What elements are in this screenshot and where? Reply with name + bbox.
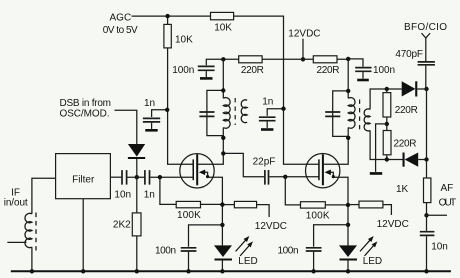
LED D4 — [214, 245, 232, 257]
wire coupling node down to R8 — [136, 177, 138, 213]
node IF rail — [30, 269, 34, 273]
svg-text:1K: 1K — [396, 184, 409, 195]
node tank1 top — [221, 88, 225, 92]
ground divider — [370, 172, 382, 175]
wire R10 to 12VDC stub — [257, 205, 270, 217]
core of T2 dashed — [359, 100, 361, 131]
node tank2 bottom — [346, 136, 350, 140]
ground under C1 — [145, 129, 157, 132]
node divider mid — [385, 122, 389, 126]
node C13 rail — [311, 269, 315, 273]
node R8 rail — [135, 269, 139, 273]
wire BFO terminal down to C8 — [425, 38, 427, 61]
resistor R9 100K feedback Q1 — [176, 201, 200, 207]
wire filter output to C10 — [110, 176, 121, 178]
svg-text:220R: 220R — [395, 105, 418, 116]
svg-text:LED: LED — [238, 256, 257, 267]
node 220R divider top — [385, 87, 389, 91]
svg-text:in/out: in/out — [4, 197, 28, 208]
wire C6 to gate1 Q2 — [269, 176, 319, 178]
node tank1 bottom — [221, 136, 225, 140]
svg-text:0V to 5V: 0V to 5V — [103, 25, 138, 36]
resistor R10 source feed Q1 — [234, 201, 256, 207]
resistor R11 100K feedback Q2 — [301, 202, 326, 208]
capacitor C8 470pF — [418, 62, 435, 65]
capacitor C6 22pF coupling — [265, 170, 269, 185]
wire C10 to node / node to C11 — [127, 176, 144, 178]
ground rail — [11, 270, 451, 272]
wire divider mid to ground — [376, 124, 387, 172]
capacitor C11 1n coupling — [145, 170, 150, 185]
svg-text:12VDC: 12VDC — [288, 28, 320, 39]
core of T1 dashed — [234, 98, 236, 125]
svg-text:10n: 10n — [431, 241, 448, 252]
svg-text:470pF: 470pF — [395, 49, 423, 60]
svg-text:10n: 10n — [114, 190, 131, 201]
capacitor C4 100n decoupling node B — [348, 59, 363, 67]
node gate1 Q2 — [283, 175, 287, 179]
svg-text:AF: AF — [441, 183, 454, 194]
capacitor C12 100n source bypass Q1 — [181, 248, 197, 251]
svg-text:22pF: 22pF — [253, 157, 276, 168]
svg-text:1n: 1n — [144, 98, 155, 109]
resistor R1 10K horizontal — [211, 12, 234, 19]
svg-text:OUT: OUT — [439, 198, 457, 209]
capacitor C7 tank2 — [325, 112, 340, 116]
svg-text:12VDC: 12VDC — [377, 219, 409, 230]
wire L4 bottom to diode D3 line — [370, 130, 403, 159]
node gate2 Q2 / C2 junction — [281, 107, 285, 111]
node D3 junction on BFO line — [424, 157, 428, 161]
resistor R5 220R divider upper — [386, 89, 388, 160]
svg-text:100K: 100K — [177, 210, 201, 221]
node A — [221, 57, 225, 61]
wire gate1 Q2 to R11 — [285, 177, 300, 205]
wire R11 to source node Q2 — [325, 204, 348, 206]
svg-text:10K: 10K — [214, 23, 232, 34]
svg-text:OSC/MOD.: OSC/MOD. — [60, 109, 110, 120]
LED D4 arrows — [236, 239, 251, 256]
node drain Q1 — [221, 151, 225, 155]
inductor L5 IF coil — [25, 213, 32, 247]
svg-text:100n: 100n — [373, 65, 395, 76]
filter FL1 box — [56, 154, 111, 199]
wire bypass branch to C13 — [314, 225, 348, 247]
node gate1 Q1 — [158, 175, 162, 179]
resistor R7 1K — [424, 178, 431, 203]
wire source node to R10 — [222, 204, 234, 206]
wire D3 anode to BFO line — [418, 159, 426, 161]
diode D2 detector — [402, 81, 416, 96]
wire R9 to source node Q1 — [201, 203, 223, 205]
svg-text:AGC: AGC — [110, 12, 132, 23]
inductor L1 tank1 primary — [223, 98, 230, 129]
node source bypass Q1 — [220, 223, 224, 227]
ground under C2 — [261, 128, 273, 131]
node C9 rail — [424, 269, 428, 273]
svg-text:1n: 1n — [144, 190, 155, 201]
capacitor C3 100n decoupling node A — [206, 59, 223, 65]
svg-text:10K: 10K — [175, 34, 193, 45]
node coupling caps / D1 / R8 junction — [135, 175, 139, 179]
wire R7 to AF OUT node — [426, 203, 428, 216]
ground under C4 — [357, 79, 369, 82]
svg-text:220R: 220R — [317, 65, 340, 76]
wire drain Q2 to tank2 bottom — [324, 59, 349, 164]
wire L4 top to detector diode D2 — [370, 89, 402, 109]
ground under C3 — [200, 77, 213, 80]
wire 12VDC stub down — [302, 39, 304, 60]
capacitor C10 10n coupling — [122, 170, 127, 185]
wire supply rail y=59 from node A to node B — [223, 58, 348, 60]
svg-text:100n: 100n — [155, 246, 176, 257]
wire R12 to 12VDC stub — [383, 205, 392, 215]
node tank2 top — [346, 89, 350, 93]
wire D1 cathode to coupling node — [136, 159, 138, 177]
svg-text:100n: 100n — [172, 65, 194, 76]
node source bypass Q2 — [346, 223, 350, 227]
transistor Q1 dual-gate MOSFET — [180, 154, 214, 188]
node C12 rail — [186, 269, 190, 273]
resistor R12 source feed Q2 — [359, 201, 383, 208]
node AF OUT — [424, 213, 428, 217]
wire R8 to ground rail — [136, 236, 138, 271]
node filter rail — [81, 269, 85, 273]
node source Q2 — [346, 203, 350, 207]
wire C12 to ground rail — [188, 252, 190, 272]
terminal Y BFO input — [422, 33, 431, 38]
diode D1 DSB injection — [128, 144, 145, 157]
wire drain Q1 to C6 22pF — [223, 153, 264, 176]
wire source node to R12 — [348, 204, 359, 206]
wire tank1 capacitor branch — [207, 90, 223, 135]
wire D2 cathode to BFO line — [417, 88, 426, 90]
node D3 / R6 junction — [385, 157, 389, 161]
wire C9 to ground rail — [426, 236, 428, 271]
wire AGC input to node AGC — [132, 15, 211, 17]
svg-text:100K: 100K — [306, 210, 330, 221]
capacitor C13 100n source bypass Q2 — [306, 248, 322, 251]
LED D5 arrows — [360, 239, 375, 256]
wire IF line from rail up to filter — [32, 178, 56, 271]
svg-text:BFO/CIO: BFO/CIO — [404, 22, 447, 33]
node D2 junction on BFO line — [424, 87, 428, 91]
node B — [346, 57, 350, 61]
wire DSB input to diode D1 — [115, 110, 137, 144]
node LED2 rail — [346, 269, 350, 273]
capacitor C5 tank1 — [199, 112, 214, 116]
wire C13 to ground rail — [313, 252, 315, 272]
svg-text:1n: 1n — [262, 96, 273, 107]
wire AF OUT stub — [427, 214, 448, 216]
capacitor C1 1n gate2 decoupling Q1 — [152, 110, 167, 117]
svg-text:100n: 100n — [278, 246, 299, 257]
resistor R4 220R drain feed Q2 — [313, 56, 337, 63]
wire AGC node to gate2 of Q2 via vertical drop at x=283.5 — [234, 16, 320, 164]
node 12VDC top junction — [301, 57, 305, 61]
svg-text:2K2: 2K2 — [113, 220, 131, 231]
wire tank2 capacitor branch — [333, 91, 349, 136]
inductor L4 tank2 secondary — [364, 109, 370, 131]
svg-text:LED: LED — [363, 256, 382, 267]
svg-text:Filter: Filter — [72, 175, 95, 186]
svg-text:220R: 220R — [394, 139, 417, 150]
wire BFO line down through diode junctions to R7 — [425, 66, 428, 178]
resistor R3 220R drain feed Q1 — [239, 56, 262, 63]
LED D5 — [339, 245, 357, 257]
wire tank1 main vertical / drain line of Q1 — [198, 59, 223, 164]
wire source Q2 down — [333, 177, 348, 245]
wire bypass branch to C12 — [189, 225, 223, 247]
node source Q1 — [220, 202, 224, 206]
diode D3 — [403, 153, 405, 167]
svg-text:220R: 220R — [241, 65, 264, 76]
wire C11 to gate1 Q1 — [150, 176, 193, 178]
node LED1 rail — [220, 269, 224, 273]
capacitor C2 1n gate2 decoupling Q2 — [267, 109, 283, 116]
svg-text:12VDC: 12VDC — [255, 221, 287, 232]
core of L5 dashed — [35, 213, 37, 251]
transistor Q2 dual-gate MOSFET — [306, 154, 340, 188]
resistor R8 2K2 — [132, 213, 141, 236]
node gate2 Q1 / C1 junction — [165, 108, 169, 112]
resistor R6 220R divider lower — [383, 131, 391, 155]
wire IF tap — [7, 241, 26, 243]
node AGC junction — [165, 14, 169, 18]
wire filter bottom pin to ground rail — [82, 199, 84, 272]
capacitor C9 10n — [420, 232, 435, 236]
wire source Q1 down — [208, 177, 223, 245]
wire AF node down to C9 — [426, 215, 428, 231]
wire AGC node down through R 10K to gate2 of Q1 — [168, 16, 194, 164]
inductor L2 tank1 secondary link — [241, 100, 247, 123]
resistor R2 10K vertical — [164, 24, 171, 48]
wire gate1 Q1 to R9 100K — [160, 177, 176, 204]
inductor L3 tank2 primary — [348, 98, 355, 129]
svg-text:DSB in from: DSB in from — [60, 98, 112, 109]
